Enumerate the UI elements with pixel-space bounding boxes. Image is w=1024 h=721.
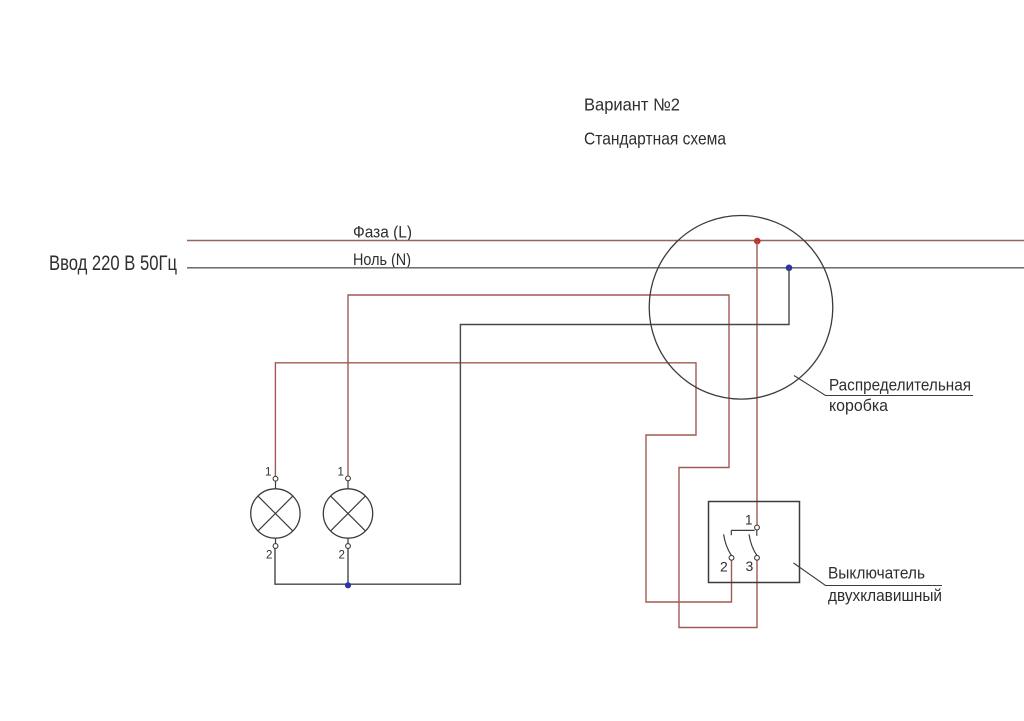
wire: phase feed to switch terminal 1	[756, 241, 758, 525]
svg-text:Ввод 220 В 50Гц: Ввод 220 В 50Гц	[49, 251, 177, 275]
svg-text:2: 2	[720, 559, 728, 575]
lamp HL1 circle	[251, 489, 300, 538]
svg-text:Распределительная: Распределительная	[829, 377, 971, 395]
lamp HL2 cross stroke 1	[331, 496, 366, 531]
switch terminal 3 circle	[755, 555, 760, 560]
switch SA1 box	[709, 502, 800, 583]
wire: lamp HL2 bottom to neutral run (blue)	[347, 548, 349, 584]
switch terminal 2 circle	[729, 555, 734, 560]
lamp HL2 circle	[323, 489, 372, 538]
junction box: distribution box circle	[649, 215, 833, 399]
lamp HL1 terminal 1 (top circle)	[273, 476, 278, 481]
switch bar right tick	[756, 530, 758, 536]
lamp HL1 cross stroke 2	[258, 496, 293, 531]
lamp HL2 top terminal stub	[347, 481, 349, 490]
node: neutral junction at lamp HL2 (blue dot)	[345, 582, 351, 588]
svg-text:Стандартная схема: Стандартная схема	[584, 129, 726, 149]
svg-text:двухклавишный: двухклавишный	[828, 587, 942, 605]
lamp HL1 cross stroke 1	[258, 496, 293, 531]
leader line to distribution box label	[794, 376, 973, 396]
wire: neutral line N (blue, horizontal)	[187, 267, 1024, 269]
svg-text:Выключатель: Выключатель	[828, 565, 925, 583]
svg-text:2: 2	[266, 550, 272, 562]
lamp HL2 terminal 1 (top circle)	[346, 476, 351, 481]
lamp HL2 cross stroke 2	[331, 496, 366, 531]
svg-text:Фаза (L): Фаза (L)	[353, 223, 412, 242]
svg-text:1: 1	[265, 466, 271, 478]
switch blade to terminal 3	[749, 534, 757, 555]
lamp HL1 terminal 2 (bottom circle)	[273, 544, 278, 549]
switch bar left tick	[730, 530, 732, 535]
lamp HL2 terminal 2 (bottom circle)	[346, 544, 351, 549]
node: phase tap junction (red dot)	[754, 238, 761, 245]
svg-text:Вариант №2: Вариант №2	[584, 95, 680, 115]
svg-text:1: 1	[745, 513, 753, 528]
lamp HL1 top terminal stub	[275, 481, 277, 489]
wire: switch terminal 2 to lamp HL1 (red)	[275, 363, 731, 602]
node: neutral tap junction (blue dot)	[786, 265, 793, 272]
svg-text:3: 3	[746, 558, 754, 574]
switch blade to terminal 2	[724, 534, 732, 555]
svg-text:коробка: коробка	[829, 397, 889, 415]
wire: phase line L (red, horizontal)	[187, 240, 1024, 242]
svg-text:Ноль (N): Ноль (N)	[353, 250, 411, 269]
svg-text:2: 2	[339, 550, 345, 562]
svg-text:1: 1	[338, 466, 344, 478]
wire: switch terminal 3 to lamp HL2 (red)	[348, 295, 757, 628]
lamp HL2 bottom terminal stub	[347, 538, 349, 544]
lamp HL1 bottom terminal stub	[275, 538, 277, 544]
switch common bar	[731, 529, 754, 531]
leader line to switch label	[794, 563, 943, 586]
switch terminal 1 circle	[755, 525, 760, 530]
wire: neutral to lamps (blue)	[275, 268, 789, 584]
